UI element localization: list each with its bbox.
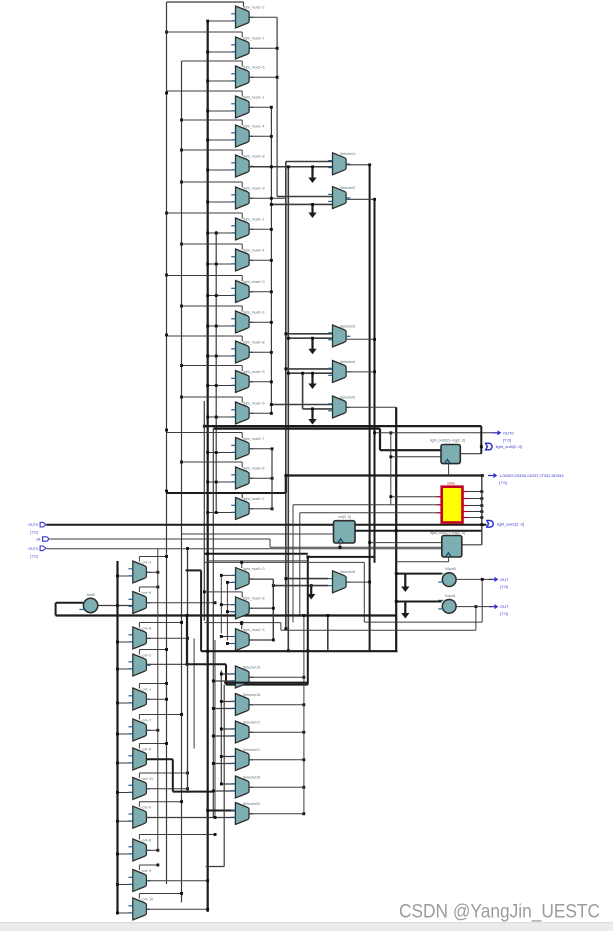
wire net fb2v bbox=[475, 607, 477, 631]
wire input1 light_mux2~0 bbox=[221, 574, 235, 576]
junction input light_mux0~5 bbox=[206, 416, 209, 419]
junction input ~cnt~11 bbox=[116, 791, 119, 794]
junction q3 bbox=[481, 474, 484, 477]
junction L2 bbox=[180, 305, 183, 308]
svg-text:OUT: OUT bbox=[500, 577, 509, 582]
junction S3in2 bbox=[287, 337, 290, 340]
svg-text:~cnt~4: ~cnt~4 bbox=[140, 869, 151, 873]
junction S4in1 bbox=[284, 367, 287, 370]
mux Selector3 bbox=[328, 324, 355, 347]
svg-text:[7:0]: [7:0] bbox=[499, 480, 507, 485]
junction select ~cnt~10 bbox=[180, 892, 183, 895]
mux ~cnt~2 bbox=[129, 653, 152, 676]
wire reg2 in1 bbox=[370, 542, 443, 544]
svg-text:Add0: Add0 bbox=[87, 593, 95, 597]
wire select ~cnt~5 bbox=[139, 743, 166, 745]
input port clk bbox=[36, 537, 48, 542]
svg-text:light_mux2~9: light_mux2~9 bbox=[243, 186, 264, 190]
mux ~cnt~3 bbox=[129, 560, 152, 583]
wire state lpin2v bbox=[299, 513, 301, 616]
wire net fb1c bbox=[280, 623, 282, 631]
wire select light_mux0~1 bbox=[167, 212, 243, 214]
wire net c1sel bbox=[208, 560, 308, 562]
svg-text:~cnt~6: ~cnt~6 bbox=[140, 838, 151, 842]
ground g1 bbox=[308, 167, 316, 183]
junction input ~cnt~0 bbox=[116, 820, 119, 823]
wire select light_mux0~6 bbox=[182, 461, 243, 463]
svg-text:clk: clk bbox=[36, 538, 41, 542]
svg-text:Selector21: Selector21 bbox=[243, 748, 260, 752]
junction g1 bbox=[311, 165, 314, 168]
svg-text:light_out0[2]~reg[2..0]: light_out0[2]~reg[2..0] bbox=[430, 439, 465, 443]
wire reg1 out bbox=[460, 453, 481, 455]
junction input light_mux2~5 bbox=[206, 80, 209, 83]
svg-text:light_mux0~4: light_mux0~4 bbox=[243, 248, 264, 252]
junction input light_mux2~1 bbox=[206, 110, 209, 113]
svg-text:INput0: INput0 bbox=[445, 567, 456, 571]
svg-text:~cnt~8: ~cnt~8 bbox=[140, 626, 151, 630]
wire bus mid4 bbox=[308, 556, 375, 558]
wire net A6-S1 bbox=[249, 166, 332, 168]
junction L1 bbox=[165, 31, 168, 34]
wire output light_mux2~2 bbox=[249, 16, 277, 18]
mux light_mux2~2 bbox=[231, 5, 264, 28]
junction S6out bbox=[368, 581, 371, 584]
svg-text:light_mux2~8: light_mux2~8 bbox=[243, 154, 264, 158]
junction rail light_mux0~0 bbox=[215, 294, 218, 297]
junction gnd7 bbox=[395, 572, 398, 575]
wire input light_mux0~2 bbox=[208, 512, 236, 514]
mux light_mux0~8 bbox=[231, 340, 264, 363]
junction output ~cnt~3 bbox=[156, 571, 159, 574]
svg-text:CSDN @YangJin_UESTC: CSDN @YangJin_UESTC bbox=[399, 901, 600, 923]
junction L2 bbox=[180, 149, 183, 152]
junction output ~cnt~10 bbox=[206, 908, 209, 911]
junction A6 net bbox=[270, 165, 273, 168]
mux ~cnt~0 bbox=[129, 806, 152, 829]
wire output light_mux0~3 bbox=[249, 321, 271, 323]
junction input light_mux2~4 bbox=[206, 139, 209, 142]
mux light_mux2~4 bbox=[231, 124, 264, 147]
svg-text:OUT0: OUT0 bbox=[28, 547, 38, 551]
wire state rpin0 bbox=[463, 491, 468, 493]
svg-text:Selector16: Selector16 bbox=[243, 775, 260, 779]
mux Selector6 bbox=[328, 570, 355, 593]
wire input ~cnt~4 bbox=[118, 884, 133, 886]
junction V1 bbox=[270, 380, 273, 383]
junction input light_mux0~4 bbox=[206, 263, 209, 266]
wire bus D1 bbox=[224, 682, 308, 684]
wire reg2 clk bbox=[448, 557, 450, 562]
wire reg1 clk bbox=[448, 464, 450, 476]
wire input ~cnt~1 bbox=[118, 702, 133, 704]
mux light_mux0~5 bbox=[231, 401, 264, 424]
svg-text:[7:0]: [7:0] bbox=[503, 437, 511, 442]
svg-text:light_mux2~5: light_mux2~5 bbox=[243, 65, 264, 69]
junction input light_mux0~9 bbox=[206, 384, 209, 387]
wire net S2in2 bbox=[271, 203, 332, 205]
junction rail light_mux0~3 bbox=[215, 325, 218, 328]
junction bus out0 bbox=[284, 474, 287, 477]
junction cnt out bbox=[395, 529, 398, 532]
wire bus U bbox=[201, 650, 397, 652]
junction V1 bbox=[270, 135, 273, 138]
wire net S6in1 bbox=[286, 578, 328, 580]
junction L2 bbox=[180, 243, 183, 246]
mux Selector21 bbox=[231, 748, 260, 771]
junction V1b bbox=[271, 447, 274, 450]
svg-text:light_aux1[2..0]: light_aux1[2..0] bbox=[497, 521, 524, 526]
wire select light_mux2~9 bbox=[182, 181, 243, 183]
wire output light_mux2~3 bbox=[249, 639, 273, 641]
junction rail light_mux0~4 bbox=[215, 263, 218, 266]
wire select light_mux2~1 bbox=[167, 90, 243, 92]
mux light_mux0~9 bbox=[231, 370, 264, 393]
wire select ~cnt~6 bbox=[139, 834, 215, 836]
junction output Selector20 bbox=[302, 812, 305, 815]
output port light_out0 bbox=[486, 443, 522, 450]
wire add0 loop bbox=[56, 602, 84, 604]
junction V2 bbox=[276, 76, 279, 79]
wire select light_mux2~8 bbox=[182, 149, 243, 151]
wire trunk L2 bbox=[181, 61, 183, 903]
wire net S2in1 bbox=[277, 196, 332, 198]
wire state rpin3 bbox=[463, 511, 468, 513]
wire net S6in2 bbox=[273, 585, 328, 587]
junction input light_mux2~8 bbox=[206, 169, 209, 172]
mux ~cnt~7 bbox=[129, 718, 152, 741]
wire input light_mux0~3 bbox=[208, 325, 236, 327]
wire input0 Selector20 bbox=[208, 810, 236, 812]
junction input light_mux0~7 bbox=[206, 451, 209, 454]
wire output light_mux0~2 bbox=[249, 508, 272, 510]
svg-text:Selector20: Selector20 bbox=[243, 802, 260, 806]
wire net S4in1 bbox=[286, 368, 333, 370]
wire select light_mux2~4 bbox=[182, 119, 243, 121]
wire input light_mux0~0 bbox=[208, 295, 236, 297]
junction input ~cnt~8 bbox=[116, 641, 119, 644]
wire trunk V2 bbox=[276, 17, 278, 196]
svg-text:Selector2: Selector2 bbox=[340, 186, 355, 190]
junction C3out bbox=[272, 639, 275, 642]
svg-text:Selector1: Selector1 bbox=[340, 152, 355, 156]
mux Selector20 bbox=[231, 802, 260, 825]
wire input1 light_mux2~6 bbox=[221, 604, 235, 606]
wire trunk L3 bbox=[207, 20, 209, 912]
wire net in3 bbox=[47, 548, 443, 550]
junction L1 bbox=[165, 274, 168, 277]
wire output Selector4 bbox=[346, 371, 374, 373]
junction S6in2 bbox=[272, 584, 275, 587]
wire select ~cnt~0 bbox=[139, 801, 181, 803]
adder Add0 bbox=[79, 593, 97, 613]
svg-text:state: state bbox=[447, 482, 455, 486]
junction input1 Selector21 bbox=[212, 762, 215, 765]
wire trunk L4 bbox=[215, 231, 217, 513]
ground g4 bbox=[308, 373, 316, 389]
svg-text:cnt[3..0]: cnt[3..0] bbox=[338, 515, 351, 519]
wire output Selector17 bbox=[249, 731, 304, 733]
junction S5in1 bbox=[270, 403, 273, 406]
junction V14 top bbox=[302, 614, 305, 617]
wire input1 Selector16 bbox=[213, 790, 235, 792]
wire input light_mux2~5 bbox=[208, 80, 236, 82]
junction output Selector21 bbox=[302, 758, 305, 761]
wire select ~cnt~4 bbox=[139, 864, 157, 866]
wire input2 light_mux2~0 bbox=[227, 581, 235, 583]
junction rail light_mux0~5 bbox=[215, 416, 218, 419]
junction rail light_mux0~2 bbox=[215, 511, 218, 514]
junction input0 Selector20 bbox=[206, 809, 209, 812]
junction input0 Selector21 bbox=[220, 755, 223, 758]
wire bus out0 jog bbox=[285, 476, 287, 494]
junction input0 Selector18 bbox=[220, 700, 223, 703]
ground g6 bbox=[307, 586, 315, 600]
wire input1 Selector18 bbox=[213, 708, 235, 710]
state machine state bbox=[442, 482, 463, 523]
register cnt reg bbox=[334, 515, 356, 543]
svg-text:OUT0: OUT0 bbox=[503, 430, 514, 435]
junction output Selector16 bbox=[302, 786, 305, 789]
wire input0 Selector17 bbox=[221, 728, 235, 730]
junction V17c bbox=[306, 649, 309, 652]
junction output Selector18 bbox=[302, 703, 305, 706]
wire output Selector2 bbox=[346, 198, 374, 200]
wire trunk C2rail bbox=[226, 582, 228, 640]
wire output ~cnt~9 bbox=[146, 602, 215, 604]
svg-text:Selector6: Selector6 bbox=[340, 570, 355, 574]
junction g4 bbox=[311, 372, 314, 375]
wire trunk E bbox=[116, 561, 118, 912]
wire state rpin1 bbox=[463, 498, 468, 500]
wire output ~cnt~6 bbox=[146, 849, 157, 851]
mux ~cnt~10 bbox=[129, 897, 154, 920]
junction input2 light_mux2~6 bbox=[226, 610, 229, 613]
junction input0 Selector16 bbox=[220, 783, 223, 786]
wire input ~cnt~0 bbox=[118, 820, 133, 822]
wire output light_mux0~4 bbox=[249, 259, 271, 261]
junction input1 light_mux2~0 bbox=[220, 574, 223, 577]
junction output ~cnt~2 bbox=[186, 663, 189, 666]
junction input ~cnt~5 bbox=[116, 762, 119, 765]
wire input light_mux0~4 bbox=[208, 263, 236, 265]
mux light_mux2~3 bbox=[231, 628, 264, 651]
svg-text:light_mux2~2: light_mux2~2 bbox=[243, 5, 264, 9]
wire input light_mux0~7 bbox=[208, 452, 236, 454]
junction V1 bbox=[270, 106, 273, 109]
wire input ~cnt~2 bbox=[118, 668, 133, 670]
wire trunk C1rail bbox=[220, 575, 222, 633]
junction input light_mux2~9 bbox=[206, 201, 209, 204]
svg-text:light_mux2~4: light_mux2~4 bbox=[243, 124, 264, 128]
junction input light_mux0~0 bbox=[206, 294, 209, 297]
junction select ~cnt~4 bbox=[156, 864, 159, 867]
wire bus mid3 bbox=[204, 553, 307, 555]
wire state lpin1v bbox=[292, 505, 294, 623]
junction S6in1 bbox=[284, 577, 287, 580]
wire net fb1 bbox=[364, 621, 482, 623]
wire output Selector16 bbox=[249, 786, 304, 788]
junction select ~cnt~7 bbox=[180, 713, 183, 716]
junction select ~cnt~1 bbox=[165, 682, 168, 685]
wire bus aux1 bbox=[47, 524, 487, 526]
wire net S3in1 bbox=[286, 333, 333, 335]
input port OUT0 a bbox=[28, 522, 46, 534]
wire select light_mux0~0 bbox=[167, 275, 243, 277]
junction q1 net bbox=[373, 431, 376, 434]
wire output ~cnt~4 bbox=[146, 880, 207, 882]
junction reg2 in1 bbox=[368, 541, 371, 544]
junction M3 top bbox=[186, 547, 189, 550]
ground g8 bbox=[401, 602, 409, 619]
junction c1 out bbox=[481, 578, 484, 581]
junction V1b bbox=[271, 507, 274, 510]
wire state lpin2 bbox=[300, 512, 442, 514]
wire output light_mux0~8 bbox=[249, 351, 271, 353]
wire input light_mux0~8 bbox=[208, 355, 236, 357]
wire select light_mux0~8 bbox=[167, 335, 243, 337]
mux Selector1 bbox=[328, 152, 355, 175]
wire trunk Cout bbox=[272, 579, 274, 640]
wire bus D1 bbox=[187, 663, 226, 665]
mux light_mux2~7 bbox=[231, 36, 264, 59]
mux light_mux0~4 bbox=[231, 248, 264, 271]
junction rail light_mux0~6 bbox=[215, 481, 218, 484]
wire input2 light_mux2~3 bbox=[227, 643, 235, 645]
wire output ~cnt~2 bbox=[146, 663, 187, 665]
wire input light_mux0~5 bbox=[208, 416, 236, 418]
mux ~cnt~9 bbox=[129, 591, 152, 614]
svg-text:light_mux0~6: light_mux0~6 bbox=[243, 466, 264, 470]
wire input light_mux2~1 bbox=[208, 110, 236, 112]
wire output light_mux0~1 bbox=[249, 228, 271, 230]
junction add0 out bbox=[116, 604, 119, 607]
junction input light_mux0~1 bbox=[206, 232, 209, 235]
junction input light_mux0~6 bbox=[206, 481, 209, 484]
mux light_mux0~3 bbox=[231, 310, 264, 333]
junction select ~cnt~5 bbox=[165, 742, 168, 745]
wire select light_mux0~7 bbox=[167, 432, 243, 434]
junction L1 bbox=[165, 334, 168, 337]
wire trunk V8 bbox=[395, 407, 397, 651]
wire trunk V10 bbox=[212, 429, 214, 818]
wire select jog light_mux2~3 bbox=[241, 624, 243, 630]
wire select light_mux0~2 bbox=[167, 492, 286, 494]
svg-text:Selector19: Selector19 bbox=[243, 665, 260, 669]
junction input ~cnt~3 bbox=[116, 575, 119, 578]
mux light_mux2~0 bbox=[231, 567, 264, 590]
wire select jog light_mux2~0 bbox=[241, 562, 243, 568]
ground g3 bbox=[308, 338, 316, 354]
wire select ~cnt~8 bbox=[139, 622, 181, 624]
wire c2 out bbox=[456, 606, 492, 608]
wire input ~cnt~8 bbox=[118, 641, 133, 643]
junction input ~cnt~6 bbox=[116, 853, 119, 856]
junction input0 Selector17 bbox=[220, 728, 223, 731]
wire reg1 v390 bbox=[390, 433, 392, 505]
junction input1 Selector17 bbox=[212, 735, 215, 738]
svg-text:light_mux2~7: light_mux2~7 bbox=[243, 36, 264, 40]
mux light_mux0~7 bbox=[231, 437, 264, 460]
wire net S3in2 bbox=[288, 337, 332, 339]
wire net ED thick2 bbox=[172, 759, 174, 791]
junction S4out bbox=[373, 370, 376, 373]
mux ~cnt~1 bbox=[129, 687, 152, 710]
junction L2 bbox=[180, 119, 183, 122]
wire trunk V16 bbox=[223, 685, 225, 867]
svg-text:Selector4: Selector4 bbox=[340, 360, 355, 364]
junction V5 bbox=[301, 372, 304, 375]
junction reg2 out bbox=[480, 523, 483, 526]
wire trunk V9 bbox=[203, 401, 205, 621]
wire net C1selnet bbox=[204, 561, 364, 563]
wire trunk V14 bbox=[303, 616, 305, 814]
svg-text:~cnt~2: ~cnt~2 bbox=[140, 653, 151, 657]
wire input0 Selector18 bbox=[221, 701, 235, 703]
junction select light_mux2~0 bbox=[240, 561, 243, 564]
wire trunk V17b bbox=[307, 557, 309, 685]
junction state rpin0 bbox=[480, 490, 483, 493]
wire trunk V15 bbox=[327, 616, 329, 651]
wire net fb1v bbox=[481, 579, 483, 622]
junction input1 Selector19 bbox=[212, 680, 215, 683]
wire trunk V4 bbox=[287, 167, 289, 651]
svg-text:OUT: OUT bbox=[500, 604, 509, 609]
wire input light_mux0~6 bbox=[208, 481, 236, 483]
output port state bus bbox=[488, 473, 564, 485]
mux Selector16 bbox=[231, 775, 260, 798]
svg-text:[7:0]: [7:0] bbox=[500, 584, 508, 589]
junction rail light_mux0~1 bbox=[215, 232, 218, 235]
svg-text:[7:0]: [7:0] bbox=[30, 554, 37, 558]
wire gnd8 net bbox=[396, 601, 441, 603]
svg-text:light_mux2~6: light_mux2~6 bbox=[243, 596, 264, 600]
junction V1 bbox=[270, 412, 273, 415]
wire output Selector1 bbox=[346, 164, 370, 166]
svg-text:OUT0: OUT0 bbox=[28, 523, 38, 527]
mux Selector4 bbox=[328, 360, 355, 383]
wire output ~cnt~1 bbox=[146, 698, 166, 700]
junction bus mid1 bbox=[203, 425, 206, 428]
mux Selector17 bbox=[231, 720, 260, 743]
wire output ~cnt~3 bbox=[146, 571, 157, 573]
wire select light_mux2~6 bbox=[204, 591, 242, 593]
wire bus mid1 bbox=[204, 425, 481, 427]
junction L2 bbox=[180, 461, 183, 464]
wire select light_mux2~7 bbox=[167, 31, 243, 33]
wire output light_mux0~9 bbox=[249, 381, 271, 383]
wire select ~cnt~9 bbox=[139, 586, 157, 588]
junction input1 light_mux2~3 bbox=[220, 635, 223, 638]
junction input ~cnt~1 bbox=[116, 702, 119, 705]
junction L2 bbox=[180, 396, 183, 399]
wire input light_mux2~4 bbox=[208, 139, 236, 141]
output port light_aux1 bbox=[487, 521, 524, 528]
wire output light_mux0~0 bbox=[249, 291, 271, 293]
junction L1 bbox=[165, 92, 168, 95]
wire state lpin1 bbox=[293, 504, 442, 506]
wire reg2 out bbox=[463, 544, 482, 546]
svg-text:light_mux2~3: light_mux2~3 bbox=[243, 628, 264, 632]
junction S2in2 bbox=[270, 203, 273, 206]
mux ~cnt~4 bbox=[129, 869, 152, 892]
junction busU L3 bbox=[206, 650, 209, 653]
junction L1 bbox=[165, 429, 168, 432]
junction select light_mux2~3 bbox=[240, 622, 243, 625]
wire trunk M7 bbox=[193, 638, 195, 748]
junction V1 a7 bbox=[270, 197, 273, 200]
wire v482b bbox=[481, 476, 483, 545]
